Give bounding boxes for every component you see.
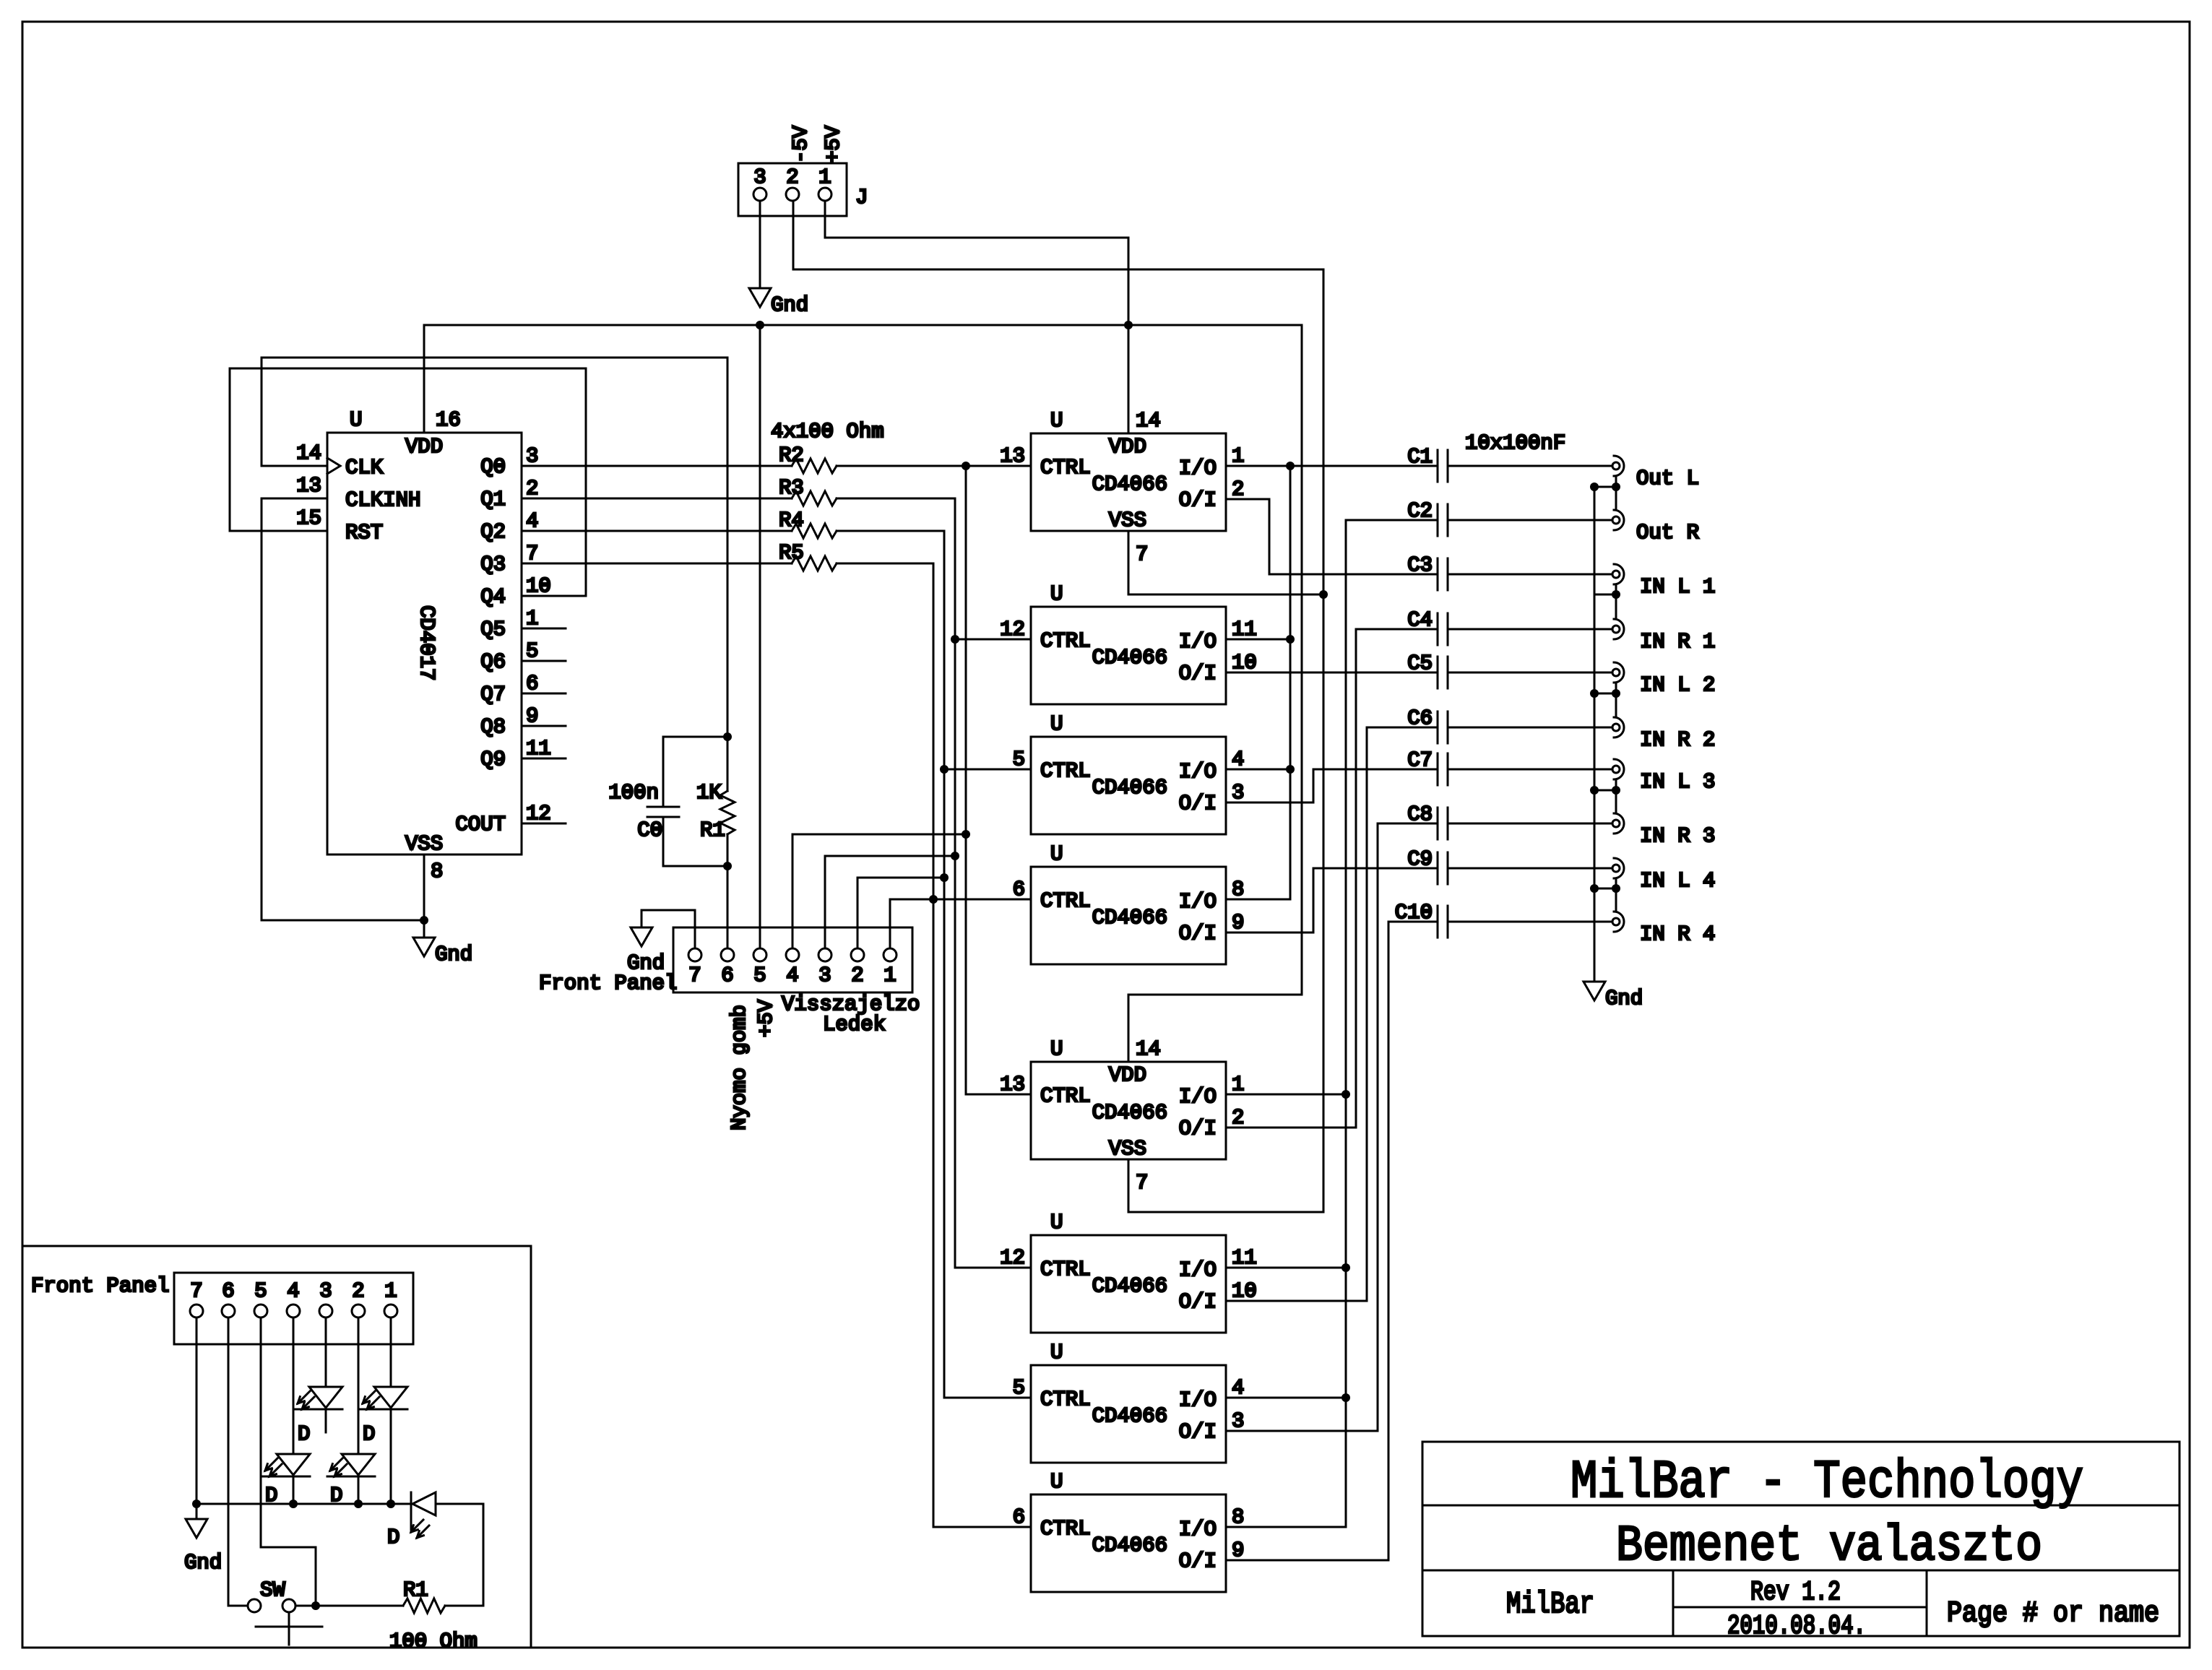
- svg-text:Gnd: Gnd: [184, 1551, 222, 1575]
- label +5V front panel: [754, 999, 778, 1037]
- svg-text:3: 3: [753, 165, 766, 189]
- wire pin1 to LED: [390, 1318, 392, 1387]
- svg-text:VSS: VSS: [1109, 509, 1146, 532]
- junction +5V / U1 VDD column: [1124, 321, 1133, 329]
- wire front panel pin7 to ground: [641, 910, 695, 948]
- junction R4 net at U4 CTRL: [940, 765, 949, 774]
- jack Out L: [1612, 456, 1699, 490]
- svg-text:Nyomo gomb: Nyomo gomb: [727, 1005, 751, 1130]
- wire LED D (pin2) cathode: [358, 1476, 360, 1504]
- wire panel pin7 to ground rail: [196, 1318, 198, 1519]
- IC U9 CD4066 switch: [1013, 1470, 1245, 1592]
- svg-text:Q0: Q0: [480, 455, 506, 479]
- svg-text:VSS: VSS: [1109, 1137, 1146, 1161]
- connector front panel (panel side): [174, 1273, 413, 1344]
- resistor R4: [779, 509, 837, 538]
- svg-text:10x100nF: 10x100nF: [1465, 431, 1565, 455]
- wire panel pin6 to switch: [228, 1318, 248, 1606]
- svg-text:IN L 1: IN L 1: [1640, 575, 1715, 599]
- capacitor C6: [1407, 706, 1448, 743]
- title text MilBar - Technology: [1571, 1453, 2083, 1513]
- wire front panel pin2 LED line: [857, 878, 944, 948]
- junction VSS/CLKINH ground: [420, 916, 428, 925]
- wire C5 to jack: [1448, 672, 1612, 674]
- svg-text:IN L 3: IN L 3: [1640, 770, 1715, 794]
- svg-text:11: 11: [1232, 618, 1257, 641]
- title text Rev 1.2: [1750, 1578, 1841, 1608]
- wire U2 VSS pin7 to -5V: [1128, 531, 1323, 594]
- svg-text:4: 4: [1232, 748, 1244, 771]
- svg-text:Q1: Q1: [480, 488, 506, 511]
- svg-text:100 Ohm: 100 Ohm: [389, 1630, 478, 1653]
- svg-text:CD4066: CD4066: [1092, 906, 1167, 930]
- svg-text:U: U: [1050, 712, 1063, 736]
- junction R1/C0 top: [723, 732, 732, 741]
- svg-text:Bemenet valaszto: Bemenet valaszto: [1616, 1518, 2042, 1575]
- svg-text:2010.08.04.: 2010.08.04.: [1727, 1611, 1866, 1642]
- svg-text:CLKINH: CLKINH: [345, 488, 420, 512]
- svg-text:11: 11: [526, 737, 551, 761]
- svg-text:5: 5: [526, 639, 538, 663]
- svg-text:12: 12: [1000, 618, 1025, 641]
- svg-text:Q5: Q5: [480, 618, 506, 641]
- svg-text:4: 4: [1232, 1376, 1244, 1400]
- svg-text:13: 13: [296, 474, 321, 498]
- capacitor C8: [1407, 802, 1448, 839]
- svg-text:4: 4: [526, 509, 538, 533]
- junction pin7 ground rail: [192, 1500, 201, 1508]
- wire U6 VDD pin14 to +5V rail: [1128, 325, 1302, 1062]
- svg-text:3: 3: [1232, 1409, 1244, 1433]
- svg-text:5: 5: [254, 1279, 267, 1303]
- capacitor C0: [637, 737, 727, 866]
- svg-text:D: D: [265, 1484, 277, 1507]
- svg-text:7: 7: [526, 542, 538, 566]
- label pin 8 of CD4017: [431, 860, 443, 883]
- wire R1 bottom lead to front panel pin6: [727, 834, 729, 948]
- svg-text:9: 9: [1232, 911, 1244, 935]
- wire J pin3 to ground: [759, 201, 761, 288]
- junction pin4/R2 net: [962, 830, 970, 839]
- junction Out L at U3 I/O: [1286, 635, 1295, 644]
- svg-text:Q6: Q6: [480, 650, 506, 674]
- wire C8 to jack: [1448, 823, 1612, 825]
- LED D (button indicator): [387, 1492, 436, 1549]
- wire Q2 to R4: [522, 530, 792, 532]
- wire jack ground bus: [1594, 487, 1596, 982]
- svg-text:CD4066: CD4066: [1092, 472, 1167, 496]
- svg-text:VDD: VDD: [1109, 435, 1146, 459]
- title block frame: [1422, 1442, 2179, 1636]
- jack IN R 4: [1612, 912, 1715, 946]
- capacitor C2: [1407, 499, 1448, 536]
- wire front panel pin4 LED line: [792, 834, 966, 948]
- junction Out R at U6 I/O: [1342, 1090, 1350, 1099]
- switch SW: [248, 1578, 322, 1645]
- wire C1 to jack: [1448, 465, 1612, 467]
- svg-text:I/O: I/O: [1179, 630, 1217, 654]
- svg-text:6: 6: [526, 672, 538, 696]
- wire switch to R1: [295, 1605, 403, 1607]
- ground symbol at power input: [749, 288, 808, 317]
- svg-text:3: 3: [1232, 781, 1244, 805]
- wire U6 VSS pin7 to -5V: [1128, 1159, 1323, 1212]
- svg-text:10: 10: [1232, 1279, 1257, 1303]
- svg-text:12: 12: [1000, 1246, 1025, 1270]
- svg-text:U: U: [350, 408, 362, 432]
- svg-text:6: 6: [1013, 878, 1025, 901]
- label Front Panel: [31, 1274, 169, 1298]
- svg-text:MilBar: MilBar: [1506, 1587, 1594, 1622]
- wire front panel pin1 LED line: [890, 899, 933, 948]
- jack Out R: [1612, 510, 1699, 545]
- svg-text:Rev 1.2: Rev 1.2: [1750, 1578, 1841, 1608]
- junction pin2/R4 net: [940, 873, 949, 882]
- wire U2 I/O pin1 to C1: [1226, 465, 1438, 467]
- svg-text:3: 3: [319, 1279, 332, 1303]
- svg-text:9: 9: [1232, 1539, 1244, 1562]
- svg-text:Gnd: Gnd: [771, 293, 808, 317]
- svg-text:4x100 Ohm: 4x100 Ohm: [771, 420, 884, 444]
- svg-text:MilBar - Technology: MilBar - Technology: [1571, 1453, 2083, 1513]
- label Visszajelzo Ledek: [782, 992, 920, 1037]
- wire +5V rail horizontal: [424, 324, 1302, 326]
- svg-text:O/I: O/I: [1179, 1549, 1217, 1573]
- capacitor C9: [1407, 847, 1448, 884]
- svg-text:-5V: -5V: [789, 125, 813, 163]
- svg-text:Q8: Q8: [480, 715, 506, 739]
- wire C3 to jack: [1448, 574, 1612, 576]
- svg-text:2: 2: [786, 165, 798, 189]
- LED D (pin2): [327, 1454, 375, 1507]
- capacitor C7: [1407, 748, 1448, 785]
- label 10x100nF: [1465, 431, 1565, 455]
- wire C6 to jack: [1448, 727, 1612, 729]
- svg-text:CD4066: CD4066: [1092, 646, 1167, 670]
- svg-text:CD4066: CD4066: [1092, 1101, 1167, 1125]
- svg-text:CTRL: CTRL: [1040, 629, 1091, 653]
- svg-text:D: D: [330, 1484, 342, 1507]
- wire panel pin5 to switch: [261, 1318, 316, 1606]
- IC U CD4017: [296, 408, 551, 856]
- ground symbol front panel detail: [184, 1519, 222, 1575]
- svg-text:7: 7: [1136, 1171, 1148, 1195]
- wire Out L bus: [1226, 466, 1290, 899]
- svg-text:R3: R3: [779, 476, 804, 500]
- svg-text:5: 5: [1013, 1376, 1025, 1400]
- LED D (pin1): [360, 1387, 407, 1446]
- IC U7 CD4066 switch: [1000, 1211, 1257, 1333]
- svg-text:O/I: O/I: [1179, 1420, 1217, 1444]
- svg-text:I/O: I/O: [1179, 760, 1217, 784]
- svg-text:Out L: Out L: [1636, 467, 1699, 490]
- wire Q3 to R5: [522, 563, 792, 565]
- svg-text:D: D: [387, 1526, 399, 1549]
- net label -5V: [789, 125, 813, 163]
- svg-text:Gnd: Gnd: [435, 943, 472, 966]
- wire jack sleeve tie 1: [1590, 476, 1620, 510]
- svg-text:16: 16: [436, 408, 461, 432]
- svg-text:Q2: Q2: [480, 520, 506, 544]
- svg-text:8: 8: [431, 860, 443, 883]
- svg-text:U: U: [1050, 582, 1063, 606]
- title text date: [1727, 1611, 1866, 1642]
- svg-text:15: 15: [296, 506, 321, 530]
- svg-text:I/O: I/O: [1179, 1388, 1217, 1412]
- svg-text:VDD: VDD: [1109, 1063, 1146, 1087]
- svg-text:C0: C0: [637, 818, 662, 842]
- svg-text:Gnd: Gnd: [1605, 987, 1643, 1011]
- wire U9 O/I pin9 to C10: [1226, 922, 1438, 1560]
- svg-text:O/I: O/I: [1179, 1290, 1217, 1314]
- wire R4 out to U4 CTRL and U8 CTRL: [837, 531, 1031, 1398]
- svg-text:U: U: [1050, 1037, 1063, 1061]
- capacitor C5: [1407, 652, 1448, 688]
- title text MilBar: [1506, 1587, 1594, 1622]
- svg-text:6: 6: [721, 964, 733, 987]
- svg-text:D: D: [363, 1422, 375, 1446]
- wire R3 out to U3 CTRL and U7 CTRL: [837, 498, 1031, 1268]
- IC U8 CD4066 switch: [1013, 1341, 1245, 1463]
- svg-text:6: 6: [222, 1279, 234, 1303]
- svg-text:CD4066: CD4066: [1092, 776, 1167, 800]
- junction R3 net at U3 CTRL: [951, 635, 959, 644]
- svg-text:CD4066: CD4066: [1092, 1404, 1167, 1428]
- svg-text:7: 7: [688, 964, 701, 987]
- svg-text:CD4066: CD4066: [1092, 1274, 1167, 1298]
- junction pin3/R3 net: [951, 852, 959, 860]
- svg-text:Q9: Q9: [480, 748, 506, 771]
- wire U3 O/I pin10 to C5: [1226, 672, 1438, 674]
- capacitor C1: [1407, 445, 1448, 482]
- svg-text:O/I: O/I: [1179, 792, 1217, 815]
- svg-text:IN L 4: IN L 4: [1640, 869, 1715, 893]
- pin stubs Q5-Q9 and COUT: [522, 628, 566, 823]
- svg-text:O/I: O/I: [1179, 662, 1217, 685]
- label Nyomo gomb: [727, 1005, 751, 1130]
- junction Out L at U4 I/O: [1286, 765, 1295, 774]
- wire jack sleeve tie 2: [1594, 584, 1620, 619]
- svg-text:CTRL: CTRL: [1040, 759, 1091, 783]
- IC U3 CD4066 switch: [1000, 582, 1257, 704]
- svg-text:14: 14: [296, 441, 321, 465]
- svg-text:7: 7: [190, 1279, 202, 1303]
- svg-text:3: 3: [526, 444, 538, 468]
- label Gnd Front Panel: [539, 951, 677, 995]
- wire C2 to jack: [1448, 519, 1612, 522]
- wire LED D (pin3) cathode stub: [325, 1409, 327, 1432]
- resistor R5: [779, 541, 837, 571]
- jack IN L 2: [1612, 662, 1715, 697]
- ground symbol front panel: [631, 927, 652, 946]
- junction LED pin4 on rail: [289, 1500, 298, 1508]
- svg-text:13: 13: [1000, 1073, 1025, 1096]
- wire pin2 to LED: [358, 1318, 360, 1454]
- wire Q1 to R3: [522, 498, 792, 500]
- svg-text:2: 2: [352, 1279, 364, 1303]
- svg-text:2: 2: [851, 964, 863, 987]
- wire CD4017 VSS pin8 to ground: [423, 855, 425, 938]
- wire U7 O/I pin10 to C6: [1226, 727, 1438, 1301]
- junction +5V / pin5 column: [756, 321, 764, 329]
- svg-text:CLK: CLK: [345, 456, 384, 480]
- svg-text:CTRL: CTRL: [1040, 889, 1091, 913]
- jack IN L 3: [1612, 759, 1715, 794]
- svg-text:J: J: [855, 186, 868, 209]
- svg-text:U: U: [1050, 842, 1063, 866]
- wire LED D5 anode to R1: [436, 1504, 483, 1606]
- label 4x100 Ohm: [771, 420, 884, 444]
- jack IN R 3: [1612, 813, 1715, 848]
- capacitor C4: [1407, 608, 1448, 645]
- wire LED D (pin1) cathode: [390, 1409, 392, 1504]
- resistor R2: [779, 444, 837, 473]
- wire U8 O/I pin3 to C8: [1226, 823, 1438, 1431]
- IC U2 CD4066 switch: [1000, 409, 1244, 566]
- ground symbol below CD4017: [413, 938, 472, 966]
- svg-text:Ledek: Ledek: [823, 1013, 886, 1037]
- svg-text:5: 5: [753, 964, 766, 987]
- svg-text:1K: 1K: [696, 781, 722, 805]
- svg-text:I/O: I/O: [1179, 457, 1217, 480]
- jack IN R 2: [1612, 717, 1715, 752]
- wire LED D (pin4) cathode: [293, 1476, 295, 1504]
- svg-text:U: U: [1050, 409, 1063, 433]
- wire U4 O/I pin3 to C7: [1226, 769, 1438, 802]
- svg-text:9: 9: [526, 704, 538, 728]
- wire +5V net from J pin1 to U1 VDD: [825, 201, 1128, 433]
- svg-text:Front Panel: Front Panel: [31, 1274, 169, 1298]
- wire CLKINH pin13 to ground: [262, 498, 424, 920]
- svg-text:14: 14: [1136, 1037, 1161, 1061]
- IC U4 CD4066 switch: [1013, 712, 1245, 834]
- wire +5V to front panel pin5: [759, 325, 761, 948]
- wire Q0 to R2: [522, 465, 792, 467]
- LED D (pin3): [295, 1387, 342, 1446]
- svg-text:10: 10: [526, 574, 551, 598]
- svg-text:6: 6: [1013, 1505, 1025, 1529]
- svg-text:Q3: Q3: [480, 553, 506, 576]
- svg-text:IN R 3: IN R 3: [1640, 824, 1715, 848]
- svg-text:I/O: I/O: [1179, 890, 1217, 914]
- wire LED ground rail: [196, 1503, 411, 1505]
- svg-text:CTRL: CTRL: [1040, 1517, 1091, 1541]
- wire pin3 to LED: [325, 1318, 327, 1387]
- svg-text:U: U: [1050, 1341, 1063, 1364]
- svg-text:CD4017: CD4017: [415, 605, 438, 680]
- wire CD4017 VDD pin16 to +5V rail: [423, 325, 425, 433]
- svg-text:+5V: +5V: [754, 999, 778, 1037]
- svg-text:2: 2: [1232, 1106, 1244, 1130]
- svg-text:10: 10: [1232, 651, 1257, 675]
- svg-text:O/I: O/I: [1179, 1117, 1217, 1141]
- wire -5V rail vertical: [1323, 269, 1325, 1212]
- svg-text:SW: SW: [260, 1578, 285, 1602]
- jack IN L 4: [1612, 858, 1715, 893]
- svg-text:4: 4: [287, 1279, 299, 1303]
- wire front panel pin3 LED line: [825, 856, 955, 948]
- svg-text:CTRL: CTRL: [1040, 1258, 1091, 1281]
- svg-text:IN R 2: IN R 2: [1640, 728, 1715, 752]
- svg-text:Page # or name: Page # or name: [1947, 1598, 2159, 1630]
- svg-text:VSS: VSS: [405, 832, 443, 856]
- svg-text:1: 1: [526, 607, 538, 631]
- resistor R1 100 Ohm: [389, 1578, 478, 1653]
- svg-text:I/O: I/O: [1179, 1518, 1217, 1541]
- front panel detail box: [22, 1246, 531, 1648]
- wire C2 to Out R bus: [1346, 519, 1438, 522]
- ground symbol jack bus: [1584, 982, 1643, 1011]
- junction R2/CTRL column: [962, 462, 970, 470]
- svg-text:D: D: [298, 1422, 310, 1446]
- svg-text:1: 1: [1232, 444, 1244, 468]
- svg-text:14: 14: [1136, 409, 1161, 433]
- connector J: [738, 163, 868, 216]
- svg-text:3: 3: [818, 964, 831, 987]
- jack IN L 1: [1612, 564, 1715, 599]
- svg-text:8: 8: [1232, 1505, 1244, 1529]
- svg-text:RST: RST: [345, 521, 383, 545]
- svg-text:I/O: I/O: [1179, 1085, 1217, 1109]
- wire jack sleeve tie 3: [1590, 683, 1620, 717]
- label 100n: [608, 781, 659, 805]
- wire pin4 to LED: [293, 1318, 295, 1454]
- wire U6 O/I pin2 to C4: [1226, 629, 1438, 1128]
- svg-text:CTRL: CTRL: [1040, 1084, 1091, 1108]
- svg-text:1: 1: [818, 165, 831, 189]
- junction R5 net at U5 CTRL: [929, 895, 938, 904]
- wire C7 to jack: [1448, 769, 1612, 771]
- resistor R3: [779, 476, 837, 506]
- capacitor C3: [1407, 553, 1448, 590]
- svg-text:2: 2: [1232, 477, 1244, 501]
- wire U2 O/I pin2 to C3: [1226, 499, 1438, 574]
- svg-text:CD4066: CD4066: [1092, 1533, 1167, 1557]
- junction R1/C0 bottom: [723, 862, 732, 870]
- svg-text:2: 2: [526, 477, 538, 501]
- junction switch/R1 node: [311, 1601, 320, 1610]
- title text Page # or name: [1947, 1598, 2159, 1630]
- svg-text:13: 13: [1000, 444, 1025, 468]
- svg-text:IN R 1: IN R 1: [1640, 630, 1715, 654]
- junction LED pin1 on rail: [386, 1500, 395, 1508]
- title text Bemenet valaszto: [1616, 1518, 2042, 1575]
- junction Out R at U8 I/O: [1342, 1393, 1350, 1402]
- resistor R1 1K: [696, 781, 735, 842]
- svg-text:1: 1: [384, 1279, 397, 1303]
- svg-text:4: 4: [786, 964, 798, 987]
- wire jack sleeve tie 4: [1590, 779, 1620, 813]
- wire U5 O/I pin9 to C9: [1226, 868, 1438, 933]
- svg-text:12: 12: [526, 802, 551, 826]
- svg-text:CTRL: CTRL: [1040, 1388, 1091, 1411]
- svg-text:I/O: I/O: [1179, 1258, 1217, 1282]
- svg-text:Out R: Out R: [1636, 521, 1699, 545]
- svg-text:Front Panel: Front Panel: [539, 972, 677, 995]
- net label +5V: [821, 125, 845, 163]
- wire -5V net from J pin2: [793, 201, 1323, 269]
- wire C10 to jack: [1448, 921, 1612, 923]
- svg-text:O/I: O/I: [1179, 922, 1217, 946]
- svg-text:11: 11: [1232, 1246, 1257, 1270]
- svg-text:COUT: COUT: [455, 813, 506, 836]
- svg-text:1: 1: [1232, 1073, 1244, 1096]
- wire R5 out to U5 CTRL and U9 CTRL: [837, 563, 1031, 1527]
- svg-text:R5: R5: [779, 541, 804, 565]
- capacitor C10: [1395, 901, 1448, 938]
- svg-text:1: 1: [883, 964, 896, 987]
- svg-text:VDD: VDD: [405, 435, 443, 459]
